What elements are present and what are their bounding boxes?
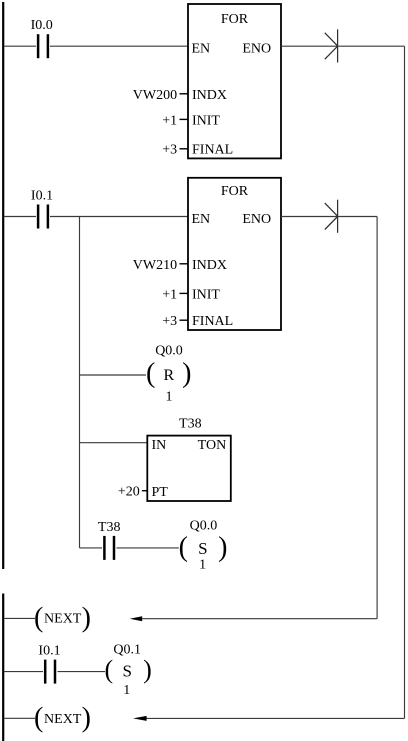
svg-text:): ) — [218, 532, 227, 563]
svg-text:Q0.0: Q0.0 — [190, 519, 218, 534]
contact I0.1 — [38, 205, 48, 229]
wire loop-back arrow 1 (from inner bus) — [130, 616, 377, 621]
wire rail to contact I0.0 — [4, 45, 36, 47]
svg-text:ENO: ENO — [242, 42, 271, 57]
wire contact I0.1 to coil S Q0.1 — [58, 671, 106, 673]
svg-text:S: S — [122, 661, 131, 680]
wire rail to contact I0.1 — [4, 216, 36, 218]
svg-text:T38: T38 — [98, 520, 121, 535]
svg-text:(: ( — [34, 703, 43, 734]
wire rail to coil NEXT 2 — [4, 717, 35, 719]
svg-text:Q0.0: Q0.0 — [155, 344, 183, 359]
svg-text:(: ( — [146, 358, 155, 389]
svg-text:(: ( — [34, 603, 43, 634]
wire right bus 2 (inner vertical) — [376, 217, 378, 619]
svg-text:FOR: FOR — [221, 12, 249, 27]
contact I0.0 — [38, 34, 48, 58]
svg-text:EN: EN — [192, 42, 211, 57]
wire right bus 1 (outer vertical) — [404, 46, 406, 718]
pin tick FINAL (U2) — [180, 319, 189, 321]
svg-text:VW210: VW210 — [133, 258, 177, 273]
svg-text:1: 1 — [166, 390, 173, 405]
pin tick INIT (U1) — [180, 118, 189, 120]
wire rail to contact I0.1 (network 3) — [4, 671, 43, 673]
svg-text:INDX: INDX — [192, 258, 227, 273]
svg-text:(: ( — [105, 655, 114, 684]
FOR box U1 — [188, 4, 281, 158]
coil S (set Q0.1) — [105, 655, 152, 684]
wire branch to coil R — [80, 374, 147, 376]
pin tick INDX (U1) — [180, 93, 189, 95]
svg-text:): ) — [82, 603, 91, 634]
pin tick FINAL (U1) — [180, 148, 189, 150]
svg-text:FINAL: FINAL — [192, 314, 233, 329]
contact T38 — [104, 536, 114, 560]
loop-scope marker 2 (arrow tick on ENO wire) — [325, 200, 338, 233]
svg-text:+1: +1 — [162, 287, 177, 302]
svg-text:+3: +3 — [162, 314, 177, 329]
svg-text:1: 1 — [123, 683, 130, 698]
coil R (reset Q0.0) — [146, 358, 192, 389]
svg-text:T38: T38 — [179, 416, 202, 431]
svg-text:PT: PT — [152, 485, 169, 500]
svg-text:1: 1 — [199, 558, 206, 573]
pin tick INDX (U2) — [180, 263, 189, 265]
svg-text:I0.0: I0.0 — [31, 18, 53, 33]
FOR box U2 — [188, 178, 281, 330]
svg-text:FINAL: FINAL — [192, 143, 233, 158]
left power rail segment 1 — [2, 2, 4, 569]
wire U2 ENO to right bus 2 — [281, 216, 377, 218]
svg-text:Q0.1: Q0.1 — [113, 643, 141, 658]
svg-text:IN: IN — [152, 438, 167, 453]
svg-text:VW200: VW200 — [133, 88, 177, 103]
svg-text:): ) — [182, 358, 191, 389]
pin tick INIT (U2) — [180, 292, 189, 294]
wire contact I0.0 to FOR box U1 EN — [50, 45, 188, 47]
wire U1 ENO to right bus 1 — [281, 45, 405, 47]
coil NEXT 1 — [34, 603, 91, 634]
svg-text:NEXT: NEXT — [44, 712, 82, 727]
svg-text:INDX: INDX — [192, 88, 227, 103]
svg-text:NEXT: NEXT — [44, 612, 82, 627]
svg-text:EN: EN — [192, 212, 211, 227]
svg-text:INIT: INIT — [192, 287, 220, 302]
svg-text:I0.1: I0.1 — [38, 644, 60, 659]
wire branch to contact T38 — [80, 547, 103, 549]
loop-scope marker 1 (arrow tick on ENO wire) — [325, 29, 338, 62]
svg-text:S: S — [198, 539, 207, 558]
svg-text:): ) — [82, 703, 91, 734]
svg-text:+3: +3 — [162, 143, 177, 158]
svg-text:+20: +20 — [118, 485, 140, 500]
coil S (set Q0.0) — [179, 532, 228, 563]
wire contact T38 to coil S — [117, 547, 179, 549]
wire branch to timer T1 IN — [80, 442, 148, 444]
svg-text:(: ( — [179, 532, 188, 563]
wire contact I0.1 to FOR box U2 EN — [50, 216, 188, 218]
svg-text:): ) — [143, 655, 152, 684]
wire loop-back arrow 2 (from outer bus) — [133, 716, 405, 721]
pin tick PT (T1) — [142, 490, 147, 492]
svg-text:TON: TON — [198, 438, 227, 453]
timer box T1 (TON) — [147, 436, 231, 501]
svg-text:FOR: FOR — [221, 184, 249, 199]
svg-text:INIT: INIT — [192, 113, 220, 128]
coil NEXT 2 — [34, 703, 91, 734]
contact I0.1 (network 3) — [45, 660, 55, 684]
left power rail segment 2 — [2, 594, 4, 741]
wire branch vertical (node after I0.1) — [79, 217, 81, 548]
svg-text:+1: +1 — [162, 113, 177, 128]
svg-text:I0.1: I0.1 — [31, 189, 53, 204]
svg-text:ENO: ENO — [242, 212, 271, 227]
wire rail to coil NEXT 1 — [4, 617, 35, 619]
svg-text:R: R — [163, 367, 174, 384]
